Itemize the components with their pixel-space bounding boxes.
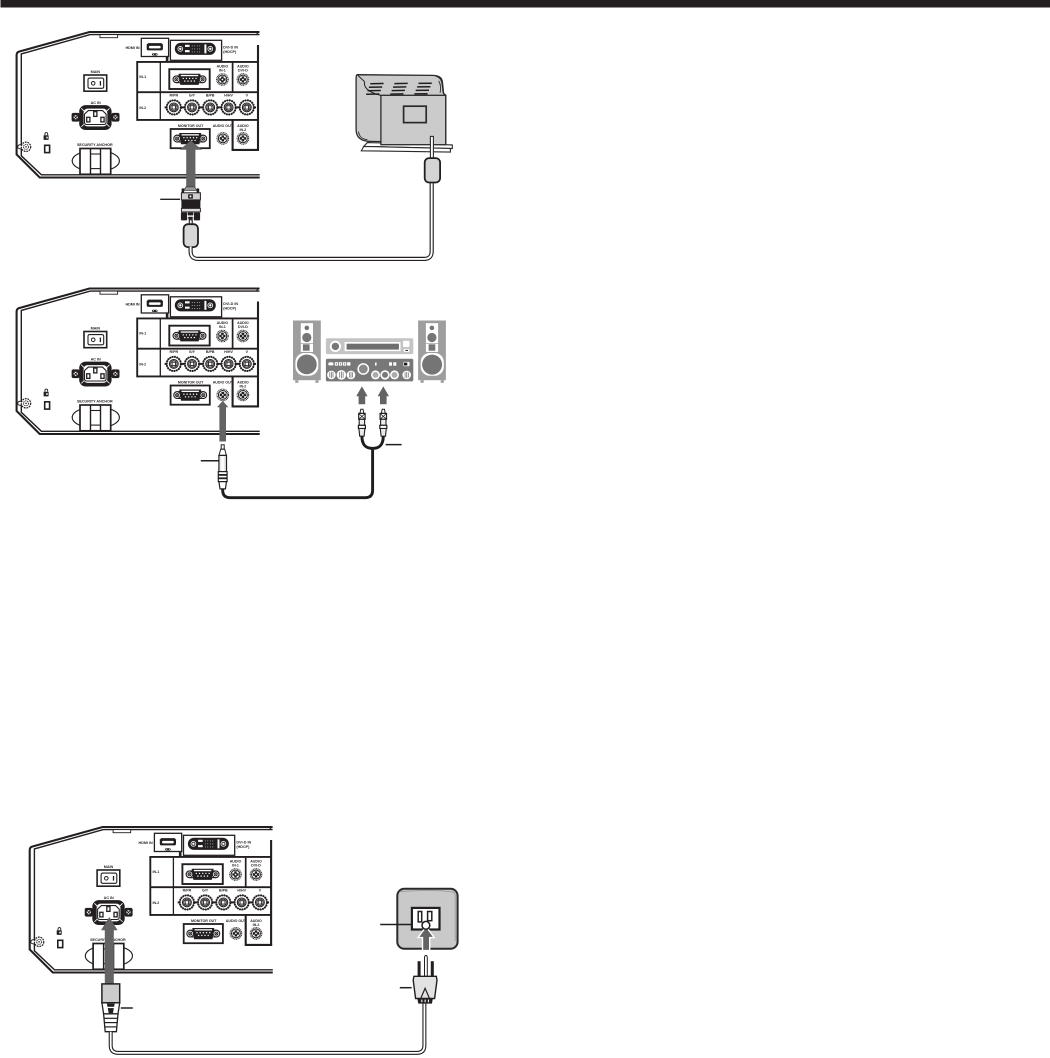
projector rear panel 3	[30, 827, 273, 973]
stereo speaker left	[293, 321, 321, 383]
ferrite core on monitor cable	[425, 158, 440, 182]
outlet screw	[422, 921, 430, 929]
gray arrow to amplifier R	[378, 386, 389, 404]
top black header bar	[1, 0, 1050, 8]
RCA plug right	[380, 409, 387, 436]
stereo speaker right	[418, 321, 446, 383]
stereo amplifier bottom deck	[326, 359, 413, 382]
outlet leader line	[380, 924, 413, 926]
VGA cable plug shell	[183, 187, 197, 191]
RCA plug left	[358, 409, 365, 436]
VGA plug body dark middle	[181, 200, 200, 209]
projector rear panel 2	[17, 288, 260, 434]
power plug ground pin	[425, 955, 428, 976]
gray arrow into outlet	[418, 927, 434, 951]
power plug leader line	[400, 987, 412, 989]
power plug neck	[417, 999, 433, 1004]
gray arrow into AUDIO OUT	[217, 401, 228, 442]
gray arrow into MONITOR OUT	[180, 141, 202, 187]
ferrite core on VGA cable	[184, 224, 198, 247]
VGA plug side screws	[182, 188, 185, 192]
projector rear panel 1	[17, 32, 260, 178]
power cord connector ribs	[104, 1014, 118, 1032]
audio cable leader line right	[386, 444, 402, 446]
stereo receiver top deck	[326, 338, 413, 354]
VGA plug body upper	[181, 193, 200, 200]
gray arrow to amplifier L	[356, 386, 367, 404]
power plug body	[413, 976, 437, 998]
monitor (rear view)	[356, 75, 446, 145]
computer cable leader line	[160, 198, 180, 200]
power cord connector body	[102, 984, 120, 1003]
stereo mini plug	[218, 445, 227, 489]
VGA-to-monitor cable run	[191, 182, 432, 259]
monitor back panel	[381, 95, 446, 144]
VGA plug cable stem	[189, 220, 192, 225]
audio cable run	[223, 449, 373, 498]
gray arrow into AC IN	[101, 917, 118, 984]
VGA plug body lower strip	[181, 208, 200, 212]
audio cable leader line	[201, 460, 221, 462]
monitor vent slots	[366, 83, 432, 94]
monitor base slabs	[364, 143, 453, 149]
wall outlet plate	[397, 889, 457, 949]
RCA cable Y split	[362, 436, 373, 449]
power cord connector taper	[102, 1003, 120, 1014]
power connector leader line	[121, 1007, 133, 1009]
power plug prongs	[418, 961, 421, 978]
power cord run	[111, 1003, 425, 1053]
monitor cable upper	[430, 136, 433, 158]
VGA plug thumbscrew knobs	[181, 212, 187, 220]
monitor label plate	[404, 106, 427, 122]
outlet receptacle	[412, 908, 440, 930]
